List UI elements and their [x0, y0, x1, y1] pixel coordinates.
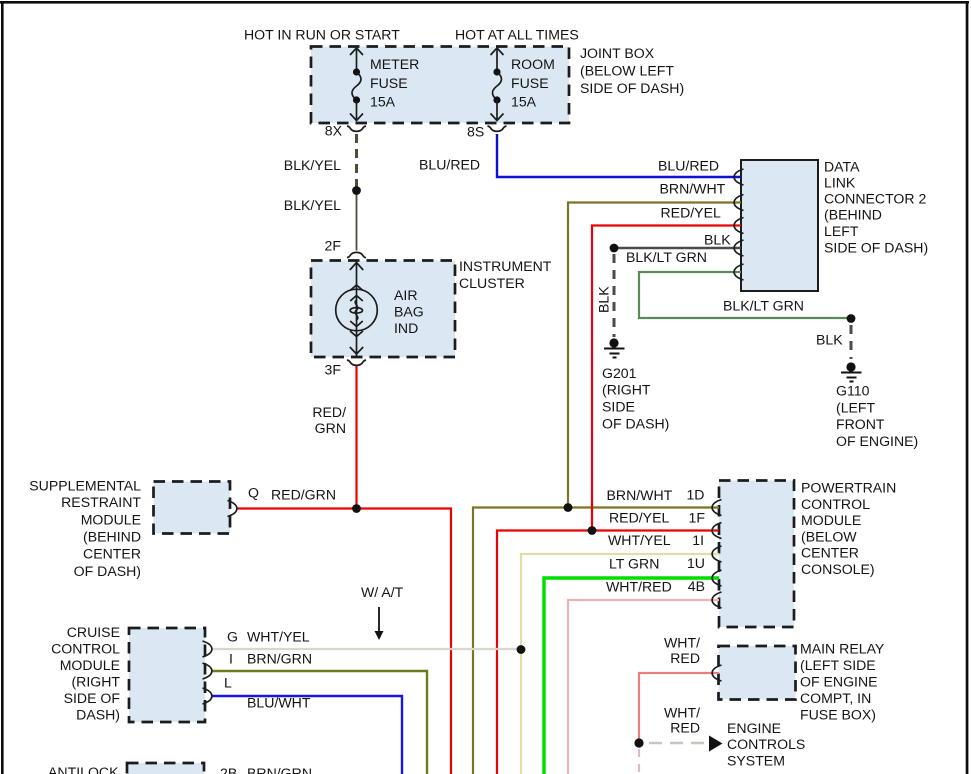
wire WHT/RED from PCM 4B down: [568, 600, 719, 774]
svg-text:BLK/LT GRN: BLK/LT GRN: [723, 298, 804, 314]
label DATA LINK CONNECTOR 2: [824, 159, 928, 256]
svg-text:BLK/YEL: BLK/YEL: [284, 197, 341, 213]
main relay pin: [712, 665, 721, 681]
svg-text:MAIN RELAY: MAIN RELAY: [800, 641, 885, 657]
DLC2 pin 2: [734, 195, 743, 211]
label BRN/GRN at cruise: [247, 651, 312, 667]
svg-text:CENTER: CENTER: [83, 546, 141, 562]
label 2F: [325, 238, 342, 254]
svg-text:OF ENGINE): OF ENGINE): [836, 433, 918, 449]
ground G201: [604, 338, 625, 357]
svg-text:WHT/YEL: WHT/YEL: [247, 629, 310, 645]
svg-text:CENTER: CENTER: [801, 545, 859, 561]
wire dashed link to engine controls arrow: [649, 742, 706, 745]
label HOT IN RUN OR START: [244, 27, 400, 43]
wire BRN/WHT horizontal to PCM 1D and down: [473, 508, 719, 774]
svg-text:3F: 3F: [325, 362, 342, 378]
fuse ROOM FUSE 15A: [491, 48, 504, 121]
PCM pin 1U: [712, 570, 721, 586]
svg-text:(RIGHT: (RIGHT: [71, 674, 120, 690]
svg-text:FRONT: FRONT: [836, 416, 885, 432]
label BLU/RED right: [658, 158, 719, 174]
svg-text:OF DASH): OF DASH): [74, 563, 141, 579]
label HOT AT ALL TIMES: [455, 27, 579, 43]
svg-text:GRN: GRN: [315, 420, 346, 436]
svg-text:RED: RED: [670, 650, 700, 666]
label RED/YEL at PCM: [609, 510, 669, 526]
svg-text:BRN/GRN: BRN/GRN: [247, 651, 312, 667]
svg-text:(LEFT: (LEFT: [836, 400, 876, 416]
svg-text:SYSTEM: SYSTEM: [727, 753, 785, 769]
wire BRN/GRN from cruise I pin: [212, 671, 427, 774]
PCM pin 4B: [712, 592, 721, 608]
svg-text:RED/GRN: RED/GRN: [271, 487, 336, 503]
joint box (fuse block): [311, 47, 569, 124]
svg-text:CONSOLE): CONSOLE): [801, 561, 875, 577]
wire BLK from DLC2 to splice: [614, 247, 741, 250]
svg-text:L: L: [224, 675, 232, 691]
label BRN/WHT top: [660, 181, 726, 197]
DLC2 pin 4: [734, 240, 743, 256]
powertrain control module box: [719, 481, 794, 628]
junction splice on BLK/YEL: [352, 186, 361, 195]
supplemental restraint module box: [154, 482, 231, 534]
svg-text:(LEFT SIDE: (LEFT SIDE: [800, 657, 876, 673]
svg-text:COMPT, IN: COMPT, IN: [800, 690, 871, 706]
label pin 1F: [689, 510, 706, 526]
label SUPPLEMENTAL RESTRAINT MODULE: [29, 478, 141, 580]
svg-text:LEFT: LEFT: [824, 223, 859, 239]
svg-text:POWERTRAIN: POWERTRAIN: [801, 480, 896, 496]
svg-text:CONTROL: CONTROL: [51, 641, 120, 657]
PCM pin 1D: [712, 500, 721, 516]
svg-text:METER: METER: [370, 56, 419, 72]
svg-text:FUSE BOX): FUSE BOX): [800, 707, 876, 723]
svg-text:I: I: [229, 651, 233, 667]
wire WHT/RED dashed below splice: [638, 749, 640, 774]
instrument cluster box: [311, 261, 455, 358]
svg-text:RED: RED: [670, 720, 700, 736]
svg-text:OF ENGINE: OF ENGINE: [800, 674, 878, 690]
svg-text:SIDE OF: SIDE OF: [64, 690, 121, 706]
svg-text:G110: G110: [836, 383, 870, 399]
svg-text:G201: G201: [602, 365, 637, 381]
label WHT/YEL at PCM: [608, 532, 671, 548]
cruise pin G: [203, 641, 212, 657]
label BLK rotated at G201 wire: [596, 286, 612, 313]
label POWERTRAIN CONTROL MODULE: [801, 480, 896, 577]
junction dot WHT/YEL: [517, 645, 526, 654]
label ENGINE CONTROLS SYSTEM: [727, 720, 805, 769]
label pin I: [229, 651, 233, 667]
svg-text:FUSE: FUSE: [511, 75, 549, 91]
svg-text:CRUISE: CRUISE: [67, 624, 120, 640]
svg-text:WHT/RED: WHT/RED: [606, 579, 672, 595]
wire LT GRN from PCM 1U down: [544, 578, 719, 774]
wire WHT/RED from main relay down to splice: [639, 673, 719, 739]
svg-text:LINK: LINK: [824, 175, 856, 191]
label MAIN RELAY: [800, 641, 885, 723]
label ANTILOCK (clipped): [48, 764, 119, 774]
svg-text:WHT/: WHT/: [664, 635, 700, 651]
label WHT/RED at main relay: [664, 635, 700, 667]
connector 2F cup: [347, 252, 366, 257]
PCM pin 1F: [712, 523, 721, 539]
wire BLK/YEL solid from splice to 2F: [356, 195, 358, 251]
data link connector 2 box: [741, 160, 818, 291]
main relay box: [719, 646, 796, 700]
junction dot RED/GRN: [352, 504, 361, 513]
label G201: [602, 365, 669, 432]
svg-text:SIDE OF DASH): SIDE OF DASH): [580, 80, 684, 96]
svg-text:WHT/YEL: WHT/YEL: [608, 532, 671, 548]
connector 8X cup: [347, 126, 366, 131]
svg-text:HOT IN RUN OR START: HOT IN RUN OR START: [244, 27, 400, 43]
wire BLU/WHT from cruise L pin: [212, 696, 402, 774]
label RED/GRN horizontal: [271, 487, 336, 503]
label pin L: [224, 675, 232, 691]
DLC2 pin 1: [734, 169, 743, 185]
svg-text:RED/YEL: RED/YEL: [661, 205, 721, 221]
DLC2 pin 3: [734, 218, 743, 234]
label WHT/RED at splice: [664, 705, 700, 736]
svg-text:8S: 8S: [467, 124, 484, 140]
wire WHT/YEL from PCM 1I down to splice and bottom: [521, 554, 719, 774]
svg-text:(BELOW: (BELOW: [801, 528, 857, 544]
label LT GRN at PCM: [609, 556, 659, 572]
label 8S: [467, 124, 484, 140]
svg-text:DASH): DASH): [76, 707, 120, 723]
junction dot BLK/LT GRN: [847, 314, 856, 323]
label BLK top: [704, 232, 731, 248]
wire BLK dashed to G110: [850, 325, 853, 359]
label ROOM FUSE 15A: [511, 56, 555, 110]
svg-text:CONTROLS: CONTROLS: [727, 736, 805, 752]
svg-text:Q: Q: [248, 485, 259, 501]
label G110: [836, 383, 918, 450]
W/ A/T option arrow: [375, 607, 384, 640]
label pin 2B (clipped): [220, 765, 237, 774]
label CRUISE CONTROL MODULE: [51, 624, 120, 723]
svg-text:MODULE: MODULE: [81, 512, 141, 528]
label pin G: [227, 629, 238, 645]
label BLK/LT GRN lower: [723, 298, 804, 314]
svg-text:BLK/LT GRN: BLK/LT GRN: [626, 249, 707, 265]
svg-text:MODULE: MODULE: [801, 512, 861, 528]
svg-text:BLK/YEL: BLK/YEL: [284, 157, 341, 173]
svg-text:HOT AT ALL TIMES: HOT AT ALL TIMES: [455, 27, 579, 43]
svg-text:(BEHIND: (BEHIND: [83, 529, 141, 545]
svg-text:2F: 2F: [325, 238, 342, 254]
cruise pin L: [203, 688, 212, 704]
label RED/YEL top: [661, 205, 721, 221]
air bag indicator bulb: [336, 262, 378, 357]
svg-text:LT GRN: LT GRN: [609, 556, 659, 572]
svg-text:CONTROL: CONTROL: [801, 496, 870, 512]
label BLK/LT GRN upper: [626, 249, 707, 265]
svg-text:1F: 1F: [689, 510, 706, 526]
DLC2 pin 5: [734, 264, 743, 280]
label 8X: [325, 123, 343, 139]
svg-text:WHT/: WHT/: [664, 705, 700, 721]
svg-text:BLK: BLK: [816, 332, 843, 348]
wire BRN/WHT from DLC2 down: [568, 203, 741, 508]
junction dot BLK: [610, 244, 619, 253]
svg-text:RED/: RED/: [312, 404, 346, 420]
label BLK/YEL lower: [284, 197, 341, 213]
label 3F: [325, 362, 342, 378]
wire RED/YEL from DLC2 down: [592, 226, 741, 531]
svg-text:4B: 4B: [688, 578, 705, 594]
label JOINT BOX: [580, 45, 684, 96]
junction dot BRN/WHT: [564, 503, 573, 512]
wire BLK dashed to G201: [613, 254, 616, 337]
PCM pin 1I: [712, 546, 721, 562]
svg-text:ENGINE: ENGINE: [727, 720, 781, 736]
wire BLK/LT GRN from DLC2 around to G110 splice: [639, 272, 851, 318]
svg-text:BLU/RED: BLU/RED: [658, 158, 719, 174]
svg-text:ROOM: ROOM: [511, 56, 555, 72]
cruise pin I: [203, 663, 212, 679]
label pin 1U: [687, 555, 705, 571]
svg-text:BRN/GRN: BRN/GRN: [247, 765, 312, 774]
label WHT/YEL at cruise: [247, 629, 310, 645]
svg-text:MODULE: MODULE: [60, 657, 120, 673]
label BRN/GRN bottom (clipped): [247, 765, 312, 774]
svg-text:15A: 15A: [511, 94, 537, 110]
label pin 1I: [692, 532, 704, 548]
svg-text:SIDE OF DASH): SIDE OF DASH): [824, 240, 928, 256]
label WHT/RED at PCM: [606, 579, 672, 595]
label pin Q: [248, 485, 259, 501]
connector 8S cup: [488, 126, 507, 131]
wire RED/GRN from 3F down: [355, 366, 357, 509]
svg-text:1D: 1D: [686, 487, 704, 503]
wire BLK/YEL dashed from 8X connector: [355, 134, 358, 187]
svg-text:BLU/WHT: BLU/WHT: [247, 695, 311, 711]
label pin 4B: [688, 578, 705, 594]
label AIR BAG IND: [394, 287, 424, 336]
svg-text:CLUSTER: CLUSTER: [459, 275, 525, 291]
svg-text:1I: 1I: [692, 532, 704, 548]
svg-text:BAG: BAG: [394, 304, 424, 320]
connector 3F cup: [347, 360, 366, 365]
SRS module pin Q: [228, 501, 237, 517]
ground G110: [841, 362, 862, 381]
cruise control module box: [129, 628, 205, 722]
svg-text:G: G: [227, 629, 238, 645]
svg-text:RED/YEL: RED/YEL: [609, 510, 669, 526]
label INSTRUMENT CLUSTER: [459, 258, 552, 291]
svg-text:1U: 1U: [687, 555, 705, 571]
svg-text:AIR: AIR: [394, 287, 418, 303]
svg-text:BLK: BLK: [704, 232, 731, 248]
svg-text:8X: 8X: [325, 123, 343, 139]
wire RED/YEL horizontal to PCM 1F and down: [497, 531, 719, 774]
svg-text:ANTILOCK: ANTILOCK: [48, 764, 119, 774]
svg-text:INSTRUMENT: INSTRUMENT: [459, 258, 552, 274]
label RED/GRN vertical wire: [312, 404, 346, 436]
svg-text:SUPPLEMENTAL: SUPPLEMENTAL: [29, 478, 141, 494]
wire BLU/RED from 8S to DLC2: [497, 134, 741, 177]
svg-text:BRN/WHT: BRN/WHT: [660, 181, 726, 197]
wire WHT/YEL horizontal from cruise G pin: [212, 648, 521, 650]
svg-text:(BEHIND: (BEHIND: [824, 207, 882, 223]
junction dot WHT/RED: [634, 738, 643, 747]
label BLK at G110: [816, 332, 843, 348]
svg-text:CONNECTOR 2: CONNECTOR 2: [824, 191, 926, 207]
svg-text:2B: 2B: [220, 765, 237, 774]
svg-text:BLU/RED: BLU/RED: [419, 157, 480, 173]
svg-text:FUSE: FUSE: [370, 75, 408, 91]
svg-text:15A: 15A: [370, 94, 396, 110]
svg-text:OF DASH): OF DASH): [602, 416, 669, 432]
label BLU/WHT at cruise: [247, 695, 311, 711]
svg-text:JOINT BOX: JOINT BOX: [580, 45, 655, 61]
svg-text:SIDE: SIDE: [602, 399, 635, 415]
svg-text:RESTRAINT: RESTRAINT: [61, 494, 141, 510]
label BRN/WHT at PCM: [607, 487, 673, 503]
engine controls system arrow: [709, 736, 723, 752]
svg-text:IND: IND: [394, 320, 418, 336]
junction dot RED/YEL: [588, 526, 597, 535]
fuse METER FUSE 15A: [350, 48, 363, 121]
svg-text:BLK: BLK: [596, 286, 612, 313]
label BLU/RED left: [419, 157, 480, 173]
svg-text:(RIGHT: (RIGHT: [602, 382, 651, 398]
label METER FUSE 15A: [370, 56, 419, 110]
svg-text:W/ A/T: W/ A/T: [361, 584, 404, 600]
wire RED/GRN horizontal from SRS to corner then down: [236, 509, 451, 774]
label BLK/YEL upper: [284, 157, 341, 173]
label W/ A/T: [361, 584, 404, 600]
svg-text:BRN/WHT: BRN/WHT: [607, 487, 673, 503]
label pin 1D: [686, 487, 704, 503]
svg-text:DATA: DATA: [824, 159, 860, 175]
svg-text:(BELOW LEFT: (BELOW LEFT: [580, 63, 674, 79]
antilock brake module box (clipped at page bottom): [127, 763, 204, 774]
